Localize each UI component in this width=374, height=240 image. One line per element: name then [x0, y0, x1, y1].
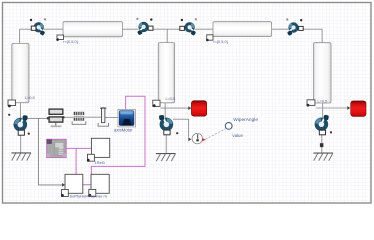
svg-text:r={0.5,0}: r={0.5,0}	[213, 40, 228, 44]
svg-text:L=0.5: L=0.5	[166, 97, 176, 101]
svg-text:axisMotor: axisMotor	[114, 127, 133, 132]
svg-text:SuPtyHuMPlanner m: SuPtyHuMPlanner m	[70, 193, 108, 198]
svg-text:r={0.5,0}: r={0.5,0}	[63, 40, 78, 44]
svg-text:L=0.5: L=0.5	[25, 96, 35, 100]
svg-text:WiperAngle: WiperAngle	[233, 117, 258, 123]
svg-text:L=0.5: L=0.5	[318, 100, 328, 104]
svg-text:1Ref1: 1Ref1	[94, 160, 105, 165]
svg-text:value: value	[232, 133, 243, 138]
